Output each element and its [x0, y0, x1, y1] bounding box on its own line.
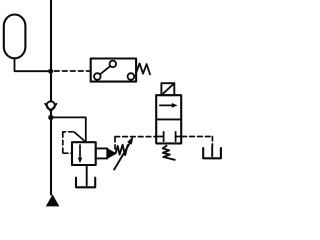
wire relief valve outlet to tank: [86, 165, 88, 185]
pilot line to pressure switch (dashed): [55, 70, 91, 72]
pressure source (filled triangle): [46, 194, 60, 206]
relief valve spring: [116, 145, 128, 155]
wire main pressure line lower segment: [50, 111, 52, 194]
solenoid valve return spring: [163, 146, 175, 160]
solenoid valve blocked ports (lower position): [156, 132, 181, 141]
node A (accumulator / pressure switch tap): [48, 69, 53, 74]
relief valve adjustment arrow: [114, 136, 133, 169]
check valve: [45, 101, 56, 111]
wire main pressure line upper segment: [50, 0, 52, 102]
wire node B to relief valve inlet: [53, 117, 86, 141]
vent line relief valve to solenoid valve (dashed): [115, 137, 156, 149]
wire accumulator to node A: [15, 58, 51, 71]
pressure switch S1: [91, 59, 136, 82]
solenoid valve V2 body: [156, 95, 181, 143]
tank T2 (under relief valve): [76, 178, 95, 188]
relief valve flow arrow: [78, 145, 83, 163]
drain line solenoid valve to tank (dashed): [182, 137, 212, 157]
relief valve V1 body: [72, 142, 96, 165]
pressure switch spring: [136, 63, 150, 74]
solenoid actuator: [161, 83, 174, 95]
relief valve pilot sense line (dashed loop): [63, 132, 84, 153]
relief valve poppet (filled triangle): [107, 148, 117, 159]
node B (relief valve tap): [48, 115, 53, 120]
solenoid valve flow arrow (upper position): [160, 103, 178, 108]
relief valve pilot stage box: [96, 148, 108, 158]
accumulator: [4, 15, 26, 59]
tank T1 (right): [203, 148, 221, 158]
